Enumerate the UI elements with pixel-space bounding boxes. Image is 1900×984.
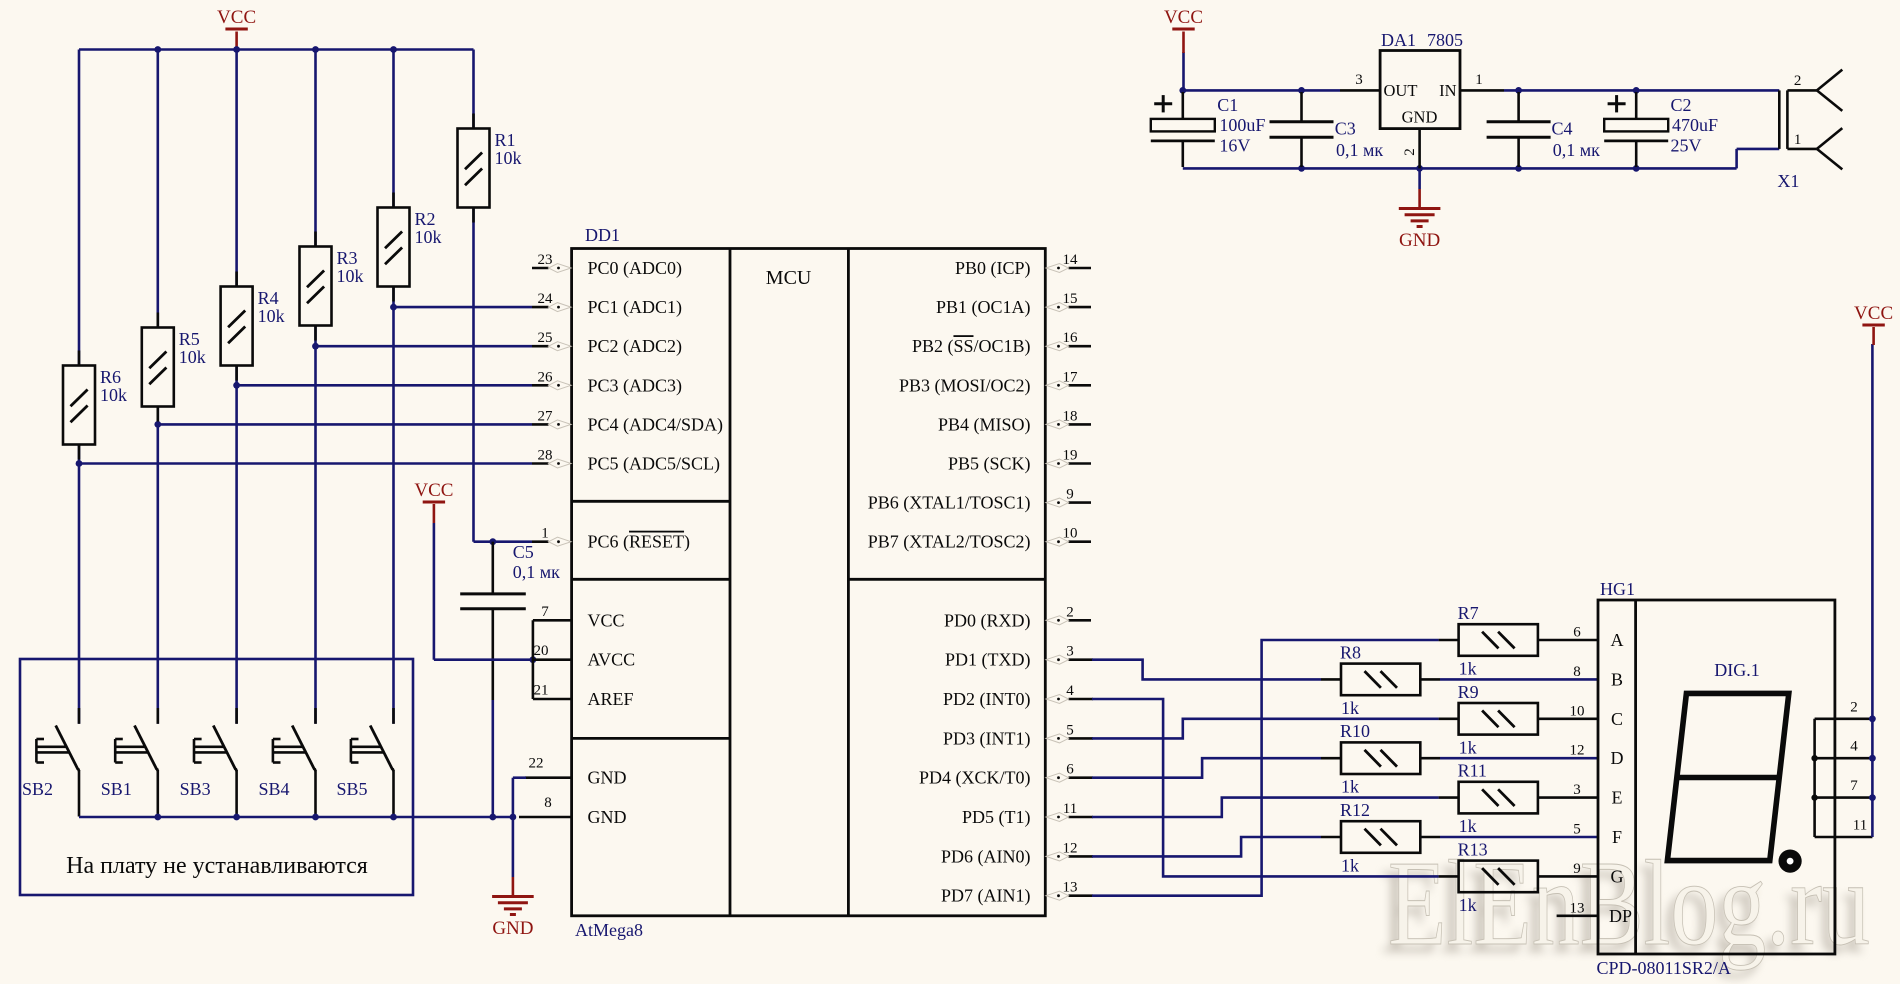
svg-text:DA1: DA1 (1381, 30, 1416, 50)
pin 12 (1069, 855, 1094, 858)
wire VCC mid stub (433, 504, 436, 523)
wire column SB1/R5 lower (157, 407, 160, 724)
wire pin21 stub (533, 698, 572, 701)
svg-text:0,1 мк: 0,1 мк (513, 562, 560, 582)
svg-text:8: 8 (1573, 664, 1581, 680)
svg-text:CPD-08011SR2/A: CPD-08011SR2/A (1597, 958, 1731, 978)
svg-text:10k: 10k (337, 266, 364, 286)
svg-text:5: 5 (1066, 722, 1074, 738)
svg-text:PB2 (SS/OC1B): PB2 (SS/OC1B) (912, 336, 1031, 357)
junction GND branch (510, 814, 517, 821)
svg-text:8: 8 (544, 795, 552, 811)
svg-text:C4: C4 (1552, 119, 1573, 139)
svg-text:10: 10 (1063, 526, 1078, 542)
svg-text:G: G (1611, 866, 1624, 886)
wire VCC to AVCC vertical (433, 523, 436, 660)
wire R4 node to PC3 (237, 384, 532, 387)
wire segment lead navy (1440, 836, 1598, 839)
capacitor C1 100uF electrolytic (1182, 92, 1185, 119)
svg-text:1k: 1k (1341, 777, 1359, 797)
svg-text:5: 5 (1573, 822, 1581, 838)
wire pin3 stub (1340, 89, 1380, 92)
svg-text:VCC: VCC (217, 7, 256, 28)
wire column SB2/R6 lower (78, 445, 81, 724)
box: not-installed-on-board switches (20, 659, 413, 895)
svg-text:4: 4 (1850, 739, 1858, 755)
svg-text:SB4: SB4 (259, 779, 290, 799)
resistor R7 1k (1459, 624, 1538, 656)
junction bracket (1811, 794, 1817, 800)
svg-text:26: 26 (538, 369, 554, 385)
pin 24 PC1 (532, 306, 549, 309)
wire to GND (512, 817, 515, 877)
wire R3 node to PC2 (316, 345, 533, 348)
svg-text:PC5 (ADC5/SCL): PC5 (ADC5/SCL) (588, 454, 721, 475)
junction R3/PC2 (312, 343, 319, 350)
wire pin7 stub (533, 619, 572, 622)
switch SB1 (157, 708, 160, 724)
HG1 common pins 2/4/7/11 (1813, 719, 1816, 837)
wire column SB4/R3 upper (314, 50, 317, 247)
wire DP stub (1557, 914, 1598, 917)
resistor R10 1k (1341, 742, 1420, 774)
wire pin1 stub (1460, 89, 1504, 92)
wire GND stub (power) (1418, 189, 1421, 209)
svg-text:24: 24 (538, 291, 554, 307)
capacitor C5 0.1uF (460, 592, 526, 595)
svg-text:4: 4 (1066, 683, 1074, 699)
svg-text:470uF: 470uF (1672, 115, 1718, 135)
wire PD3 to R9 (1092, 719, 1439, 739)
switch SB2 (78, 708, 81, 724)
capacitor C4 0.1uF (1517, 92, 1520, 122)
junction on VCC drop (1869, 794, 1876, 801)
decimal point (1779, 850, 1802, 873)
svg-text:11: 11 (1063, 801, 1077, 817)
svg-text:C5: C5 (513, 542, 534, 562)
svg-text:0,1 мк: 0,1 мк (1336, 140, 1383, 160)
svg-text:C3: C3 (1335, 119, 1356, 139)
svg-text:10k: 10k (258, 306, 285, 326)
svg-text:R2: R2 (415, 209, 436, 229)
svg-text:3: 3 (1066, 644, 1074, 660)
svg-text:VCC: VCC (588, 610, 625, 630)
wire column SB3/R4 lower (235, 366, 238, 724)
svg-text:16: 16 (1063, 330, 1079, 346)
MCU DD1 AtMega8 body (572, 249, 1046, 916)
svg-text:9: 9 (1066, 487, 1074, 503)
resistor R5 10k (157, 313, 160, 328)
svg-text:VCC: VCC (1854, 303, 1893, 324)
pin 4 (1069, 698, 1094, 701)
svg-text:SB1: SB1 (101, 779, 132, 799)
wire VCC stub (235, 32, 238, 50)
svg-text:3: 3 (1355, 72, 1363, 88)
svg-text:28: 28 (538, 448, 553, 464)
svg-text:2: 2 (1850, 699, 1858, 715)
svg-text:PD3 (INT1): PD3 (INT1) (943, 728, 1031, 749)
svg-text:E: E (1612, 788, 1623, 808)
svg-text:C1: C1 (1217, 95, 1238, 115)
svg-text:R12: R12 (1340, 800, 1370, 820)
svg-text:2: 2 (1402, 148, 1418, 156)
svg-text:PB3 (MOSI/OC2): PB3 (MOSI/OC2) (899, 375, 1031, 396)
wire VCC to AVCC horizontal (434, 658, 533, 661)
junction AVCC node (530, 656, 537, 663)
svg-text:12: 12 (1063, 840, 1078, 856)
svg-text:SB5: SB5 (337, 779, 368, 799)
junction bottom rail x=157.8 (154, 814, 161, 821)
pin 10 (n.c.) (1069, 540, 1092, 543)
svg-text:PD7 (AIN1): PD7 (AIN1) (941, 886, 1031, 907)
svg-text:R9: R9 (1458, 682, 1479, 702)
wire column SB5/R2 upper (392, 50, 395, 208)
svg-text:13: 13 (1063, 880, 1078, 896)
wire column SB4/R3 lower (314, 326, 317, 724)
svg-text:17: 17 (1063, 369, 1079, 385)
wire PD2 to R13 (1092, 699, 1439, 876)
junction bracket (1811, 755, 1817, 761)
resistor R9 1k (1459, 703, 1538, 735)
svg-text:B: B (1611, 669, 1623, 689)
pin 17 (n.c.) (1069, 384, 1092, 387)
wire PD6 to R12 (1092, 837, 1321, 856)
wire R5 node to PC4 (158, 423, 532, 426)
svg-text:C2: C2 (1671, 95, 1692, 115)
junction C2 bottom (1633, 165, 1640, 172)
svg-text:10k: 10k (179, 347, 206, 367)
svg-text:PD4 (XCK/T0): PD4 (XCK/T0) (919, 768, 1031, 789)
wire VCC stub (power) (1182, 32, 1185, 54)
junction C1 top (1179, 87, 1186, 94)
pin 3 (1069, 658, 1094, 661)
wire PD5 to R11 (1092, 798, 1439, 817)
svg-text:1: 1 (1475, 72, 1483, 88)
svg-text:IN: IN (1439, 81, 1456, 100)
svg-text:R3: R3 (337, 248, 358, 268)
svg-text:PC4 (ADC4/SDA): PC4 (ADC4/SDA) (588, 414, 724, 435)
wire column SB2/R6 upper (78, 50, 81, 366)
svg-text:R7: R7 (1458, 603, 1479, 623)
pin 16 (n.c.) (1069, 345, 1092, 348)
svg-text:1k: 1k (1459, 659, 1477, 679)
pin 11 (1069, 816, 1094, 819)
svg-text:7: 7 (1850, 778, 1858, 794)
wire column R1 lower (472, 208, 475, 542)
svg-text:GND: GND (588, 807, 627, 827)
resistor R3 10k (314, 232, 317, 247)
junction R5/PC4 (154, 421, 161, 428)
resistor R12 1k (1341, 821, 1420, 853)
svg-text:10k: 10k (495, 148, 522, 168)
svg-text:D: D (1611, 748, 1624, 768)
svg-text:1: 1 (1794, 132, 1802, 148)
digit 8 graphic (1667, 693, 1788, 860)
svg-text:VCC: VCC (1164, 7, 1203, 28)
7-segment display HG1 body (1598, 600, 1835, 954)
wire column R1 upper (472, 50, 475, 129)
junction C3 bottom (1298, 165, 1305, 172)
svg-text:1k: 1k (1459, 895, 1477, 915)
voltage regulator DA1 7805 (1380, 51, 1460, 129)
wire VCC to display commons (1871, 344, 1874, 837)
switch SB3 (235, 708, 238, 724)
svg-text:PD0 (RXD): PD0 (RXD) (944, 610, 1031, 631)
svg-text:C: C (1611, 709, 1623, 729)
svg-text:PB0 (ICP): PB0 (ICP) (955, 258, 1031, 279)
wire segment lead black (1420, 836, 1440, 839)
wire segment lead (1538, 875, 1598, 878)
svg-text:15: 15 (1063, 291, 1078, 307)
resistor R1 10k (472, 114, 475, 129)
connector X1 (1778, 90, 1781, 148)
pin 18 (n.c.) (1069, 423, 1092, 426)
wire segment lead navy (1440, 757, 1598, 760)
svg-text:0,1 мк: 0,1 мк (1553, 140, 1600, 160)
svg-text:18: 18 (1063, 408, 1078, 424)
svg-text:27: 27 (538, 408, 554, 424)
wire pin20 stub (533, 658, 572, 661)
pin 1 PC6 RESET (532, 540, 549, 543)
wire to GND (power) (1418, 168, 1421, 189)
junction on VCC rail x=315.5 (312, 46, 319, 53)
svg-text:R8: R8 (1340, 642, 1361, 662)
wire segment lead (1538, 639, 1598, 642)
svg-text:1k: 1k (1459, 816, 1477, 836)
wire step up to X1 pin1 (1735, 149, 1738, 169)
resistor R4 10k (235, 272, 238, 287)
junction C5 bottom (489, 814, 496, 821)
wire IN rail to X1 (1504, 89, 1779, 92)
svg-text:PD2 (INT0): PD2 (INT0) (943, 689, 1031, 710)
pin 9 (n.c.) (1069, 501, 1092, 504)
svg-text:GND: GND (1402, 108, 1438, 127)
resistor R11 1k (1459, 782, 1538, 814)
wire C5 bottom to rail (491, 700, 494, 817)
wire switches common bottom rail (79, 816, 513, 819)
svg-text:DD1: DD1 (585, 225, 620, 245)
junction C2 top (1633, 87, 1640, 94)
svg-text:PC3 (ADC3): PC3 (ADC3) (588, 375, 683, 396)
pin 28 PC5 (532, 462, 549, 465)
wire segment lead (1538, 717, 1598, 720)
svg-text:GND: GND (588, 768, 627, 788)
wire pin8 stub (519, 816, 572, 819)
junction R6/PC5 (76, 460, 83, 467)
svg-text:A: A (1611, 630, 1624, 650)
wire column SB5/R2 lower (392, 287, 395, 724)
svg-text:AtMega8: AtMega8 (575, 920, 643, 940)
svg-text:R13: R13 (1458, 839, 1488, 859)
svg-text:PB6 (XTAL1/TOSC1): PB6 (XTAL1/TOSC1) (868, 493, 1031, 514)
svg-text:10: 10 (1570, 703, 1585, 719)
ground symbol (power) (1399, 207, 1441, 210)
wire VCC rail to DA1 OUT (1183, 89, 1340, 92)
svg-text:PD1 (TXD): PD1 (TXD) (945, 650, 1031, 671)
svg-text:GND: GND (492, 918, 533, 939)
junction bottom rail x=393.5 (390, 814, 397, 821)
svg-text:1: 1 (541, 526, 549, 542)
wire PD1 to R8 (1092, 660, 1321, 680)
svg-text:R6: R6 (100, 367, 121, 387)
wire segment lead black (1420, 678, 1440, 681)
wire PD7 to R7 (1092, 640, 1439, 896)
svg-text:25: 25 (538, 330, 553, 346)
svg-text:23: 23 (538, 252, 553, 268)
svg-text:PB7 (XTAL2/TOSC2): PB7 (XTAL2/TOSC2) (868, 532, 1031, 553)
resistor R2 10k (392, 193, 395, 208)
junction bottom rail x=236.6 (233, 814, 240, 821)
resistor R13 1k (1459, 861, 1538, 893)
wire segment lead black (1420, 757, 1440, 760)
junction on VCC rail x=236.6 (233, 46, 240, 53)
wire pin22 to rail (513, 776, 526, 779)
svg-text:25V: 25V (1671, 136, 1702, 156)
svg-text:PB4 (MISO): PB4 (MISO) (938, 414, 1031, 435)
svg-text:1k: 1k (1341, 698, 1359, 718)
wire column SB3/R4 upper (235, 50, 238, 287)
pin 26 PC3 (532, 384, 549, 387)
wire VCC top rail (79, 48, 474, 51)
svg-text:21: 21 (534, 683, 549, 699)
junction bottom rail x=315.5 (312, 814, 319, 821)
switch SB4 (314, 708, 317, 724)
svg-text:2: 2 (1066, 604, 1074, 620)
svg-text:PB5 (SCK): PB5 (SCK) (948, 454, 1031, 475)
pin 27 PC4 (532, 423, 549, 426)
wire segment lead (1538, 796, 1598, 799)
junction C4 top (1515, 87, 1522, 94)
svg-text:DIG.1: DIG.1 (1714, 660, 1760, 680)
svg-text:2: 2 (1794, 73, 1802, 89)
junction C3 top (1298, 87, 1305, 94)
wire pin22 stub (525, 776, 572, 779)
pin 19 (n.c.) (1069, 462, 1092, 465)
svg-text:3: 3 (1573, 782, 1581, 798)
wire pins 7-20-21 link (532, 620, 535, 699)
svg-text:PC2 (ADC2): PC2 (ADC2) (588, 336, 683, 357)
svg-text:10k: 10k (415, 227, 442, 247)
junction R2/PC1 (390, 304, 397, 311)
pin 6 (1069, 776, 1094, 779)
svg-text:1k: 1k (1341, 856, 1359, 876)
svg-text:R1: R1 (495, 130, 516, 150)
svg-text:GND: GND (1399, 230, 1440, 251)
svg-text:MCU: MCU (766, 267, 812, 289)
junction on VCC drop (1869, 715, 1876, 722)
svg-text:PC6 (RESET): PC6 (RESET) (588, 532, 691, 553)
svg-text:HG1: HG1 (1600, 579, 1635, 599)
pin 25 PC2 (532, 345, 549, 348)
svg-text:PD6 (AIN0): PD6 (AIN0) (941, 846, 1031, 867)
svg-text:100uF: 100uF (1219, 115, 1265, 135)
wire PD4 to R10 (1092, 758, 1321, 778)
svg-text:6: 6 (1066, 762, 1074, 778)
svg-text:R11: R11 (1458, 761, 1487, 781)
junction on VCC rail x=157.8 (154, 46, 161, 53)
svg-text:22: 22 (529, 756, 544, 772)
wire segment lead navy (1440, 678, 1598, 681)
svg-text:SB3: SB3 (180, 779, 211, 799)
svg-text:PD5 (T1): PD5 (T1) (962, 807, 1031, 828)
wire R1 to PC6 reset (474, 540, 533, 543)
pin 5 (1069, 737, 1094, 740)
svg-text:AREF: AREF (588, 689, 634, 709)
svg-text:9: 9 (1573, 861, 1581, 877)
wire DA1 pin2 (1418, 129, 1421, 169)
pin 14 (n.c.) (1069, 267, 1092, 270)
wire pin22 vertical (512, 778, 515, 817)
svg-text:1k: 1k (1459, 737, 1477, 757)
wire VCC left vertical (1182, 52, 1185, 90)
svg-text:SB2: SB2 (22, 779, 53, 799)
wire R2 node to PC1 (394, 306, 533, 309)
svg-text:PB1 (OC1A): PB1 (OC1A) (936, 297, 1031, 318)
capacitor C2 470uF electrolytic (1635, 92, 1638, 119)
svg-text:OUT: OUT (1384, 81, 1418, 100)
junction DA1 GND (1416, 165, 1423, 172)
svg-text:PC1 (ADC1): PC1 (ADC1) (588, 297, 683, 318)
junction C4 bottom (1515, 165, 1522, 172)
wire to X1 pin1 (1737, 148, 1780, 151)
pin 2 PD0 (n.c.) (1069, 619, 1092, 622)
svg-text:PC0 (ADC0): PC0 (ADC0) (588, 258, 683, 279)
svg-text:6: 6 (1573, 625, 1581, 641)
svg-text:7: 7 (541, 604, 549, 620)
svg-text:VCC: VCC (414, 480, 453, 501)
svg-text:R10: R10 (1340, 721, 1370, 741)
junction on VCC rail x=393.5 (390, 46, 397, 53)
resistor R6 10k (78, 351, 81, 366)
svg-text:На плату не устанавливаются: На плату не устанавливаются (66, 853, 368, 879)
junction R4/PC3 (233, 382, 240, 389)
pin 15 (n.c.) (1069, 306, 1092, 309)
svg-text:X1: X1 (1777, 171, 1799, 191)
pin 23 PC0 (n.c.) (532, 267, 549, 270)
wire power bottom rail (1183, 167, 1737, 170)
svg-text:7805: 7805 (1427, 30, 1463, 50)
svg-text:19: 19 (1063, 448, 1078, 464)
ground symbol (MCU) (492, 895, 534, 898)
svg-text:R4: R4 (258, 288, 279, 308)
svg-text:20: 20 (534, 643, 549, 659)
wire VCC stub (display) (1872, 327, 1875, 345)
junction on VCC drop (1869, 755, 1876, 762)
svg-text:12: 12 (1570, 743, 1585, 759)
svg-text:14: 14 (1063, 252, 1079, 268)
wire R6 node to PC5 (79, 462, 532, 465)
resistor R8 1k (1341, 664, 1420, 696)
pin 13 (1069, 894, 1094, 897)
svg-text:AVCC: AVCC (588, 650, 636, 670)
capacitor C3 0.1uF (1300, 92, 1303, 122)
wire C5 top lead (491, 542, 494, 594)
svg-text:10k: 10k (100, 385, 127, 405)
svg-text:DP: DP (1609, 906, 1632, 926)
switch SB5 (392, 708, 395, 724)
svg-text:R5: R5 (179, 329, 200, 349)
wire column SB1/R5 upper (157, 50, 160, 328)
svg-text:13: 13 (1570, 900, 1585, 916)
junction node C5 top (489, 538, 496, 545)
svg-text:11: 11 (1853, 818, 1867, 834)
wire GND stub (512, 877, 515, 897)
svg-text:16V: 16V (1219, 136, 1250, 156)
svg-text:F: F (1612, 827, 1622, 847)
